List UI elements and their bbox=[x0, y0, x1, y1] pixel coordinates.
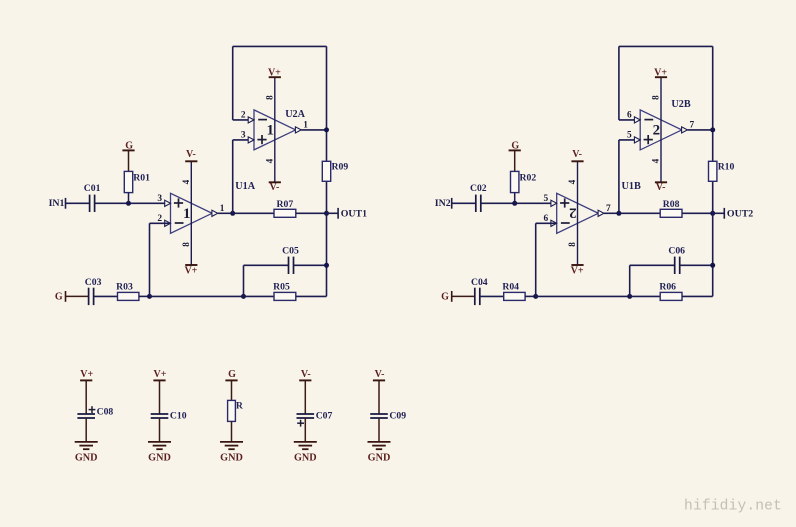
wire bbox=[149, 223, 151, 296]
svg-text:4: 4 bbox=[651, 158, 661, 163]
svg-text:R02: R02 bbox=[520, 172, 537, 183]
svg-text:R: R bbox=[236, 400, 244, 411]
node rail junction 2 bbox=[241, 294, 246, 299]
wire bbox=[680, 264, 713, 266]
resistor R09 bbox=[322, 161, 348, 181]
pin 5 (+in) bbox=[627, 131, 640, 144]
wire bbox=[66, 295, 89, 297]
wire bbox=[296, 212, 327, 214]
port OUT2 bbox=[724, 208, 753, 219]
resistor R01 bbox=[124, 151, 150, 204]
power V+ U1A pin 8 bbox=[181, 242, 198, 277]
svg-text:G: G bbox=[55, 292, 63, 303]
capacitor C05 bbox=[282, 245, 299, 274]
wire bbox=[630, 264, 675, 266]
svg-text:8: 8 bbox=[181, 242, 191, 247]
wire bbox=[630, 295, 661, 297]
wire bbox=[232, 140, 234, 213]
wire bbox=[629, 265, 631, 296]
wire bbox=[619, 45, 713, 47]
svg-text:5: 5 bbox=[627, 131, 632, 141]
port IN1 bbox=[49, 198, 66, 209]
svg-text:U1B: U1B bbox=[622, 181, 641, 192]
power port G rail bbox=[441, 291, 452, 303]
port IN2 bbox=[435, 198, 452, 209]
svg-text:IN2: IN2 bbox=[435, 198, 451, 209]
wire bbox=[243, 265, 245, 296]
svg-text:5: 5 bbox=[544, 194, 549, 204]
svg-text:R08: R08 bbox=[663, 199, 680, 210]
wire bbox=[481, 202, 557, 204]
capacitor C04 bbox=[471, 277, 488, 305]
pin 5 (+in) bbox=[544, 194, 557, 207]
svg-text:R01: R01 bbox=[133, 172, 150, 183]
svg-text:2: 2 bbox=[157, 214, 162, 224]
svg-text:V+: V+ bbox=[184, 266, 197, 277]
svg-text:G: G bbox=[441, 292, 449, 303]
power V- U2B pin 4 bbox=[651, 158, 667, 193]
power V- U1B pin 4 bbox=[567, 149, 583, 184]
pin 1 (out) bbox=[295, 120, 308, 133]
svg-text:6: 6 bbox=[544, 214, 549, 224]
wire bbox=[682, 212, 713, 214]
wire bbox=[233, 139, 254, 141]
svg-text:U2B: U2B bbox=[671, 99, 690, 110]
resistor R08 bbox=[660, 199, 682, 217]
node IN1-junction bbox=[126, 201, 131, 206]
resistor R06 bbox=[659, 281, 682, 300]
power stick U2B bbox=[660, 77, 662, 182]
svg-text:R04: R04 bbox=[502, 281, 519, 292]
wire bbox=[536, 222, 557, 224]
svg-text:R03: R03 bbox=[116, 281, 133, 292]
wire bbox=[536, 295, 630, 297]
svg-text:V-: V- bbox=[301, 369, 311, 380]
svg-text:U2A: U2A bbox=[285, 109, 305, 120]
op-amp U2A bbox=[254, 110, 296, 150]
wire bbox=[480, 295, 504, 297]
power V+ U1B pin 8 bbox=[567, 242, 584, 277]
resistor R02 bbox=[511, 151, 537, 204]
node rail junction bbox=[533, 294, 538, 299]
svg-text:OUT1: OUT1 bbox=[341, 208, 367, 219]
wire bbox=[294, 264, 327, 266]
wire bbox=[233, 45, 327, 47]
wire bbox=[525, 295, 536, 297]
resistor R10 bbox=[709, 161, 735, 181]
svg-text:U1A: U1A bbox=[235, 181, 255, 192]
svg-text:V-: V- bbox=[375, 369, 385, 380]
wire bbox=[301, 129, 326, 131]
wire bbox=[232, 46, 234, 120]
pin 2 (-in) bbox=[241, 111, 254, 124]
wire bbox=[619, 119, 640, 121]
svg-text:GND: GND bbox=[220, 452, 243, 463]
svg-text:2: 2 bbox=[653, 122, 661, 138]
svg-text:8: 8 bbox=[567, 242, 577, 247]
node OUT2 bbox=[710, 211, 715, 216]
wire bbox=[244, 295, 275, 297]
power G bbox=[509, 140, 521, 151]
svg-text:C09: C09 bbox=[389, 411, 406, 422]
svg-text:4: 4 bbox=[264, 158, 274, 163]
power stick U1B bbox=[577, 161, 579, 265]
node U2B output bbox=[710, 127, 715, 132]
wire bbox=[233, 212, 274, 214]
capacitor C01 bbox=[84, 183, 101, 212]
svg-text:V-: V- bbox=[572, 149, 582, 160]
power port G rail bbox=[55, 291, 66, 303]
node rail junction 2 bbox=[627, 294, 632, 299]
svg-text:C08: C08 bbox=[97, 406, 114, 417]
svg-text:R09: R09 bbox=[332, 161, 349, 172]
svg-text:hifidiy.net: hifidiy.net bbox=[684, 499, 782, 515]
svg-text:V-: V- bbox=[269, 182, 279, 193]
wire bbox=[150, 222, 171, 224]
svg-text:GND: GND bbox=[294, 452, 317, 463]
resistor R03 bbox=[116, 281, 139, 300]
svg-text:C10: C10 bbox=[170, 411, 187, 422]
capacitor C02 bbox=[470, 183, 487, 212]
wire bbox=[712, 46, 714, 296]
node U2A output bbox=[324, 127, 329, 132]
wire bbox=[327, 212, 339, 214]
svg-text:C05: C05 bbox=[282, 245, 299, 256]
wire bbox=[618, 140, 620, 213]
svg-text:V+: V+ bbox=[571, 266, 584, 277]
op-amp U1A designator bbox=[235, 181, 255, 192]
node IN2-junction bbox=[512, 201, 517, 206]
power G bbox=[122, 140, 134, 151]
svg-text:GND: GND bbox=[368, 452, 391, 463]
wire bbox=[618, 46, 620, 120]
svg-text:1: 1 bbox=[303, 120, 308, 130]
wire bbox=[619, 139, 640, 141]
wire bbox=[150, 295, 244, 297]
wire bbox=[233, 119, 254, 121]
wire bbox=[682, 295, 713, 297]
power V+ U2B pin 8 bbox=[651, 68, 668, 100]
pin 3 (+in) bbox=[241, 131, 254, 144]
svg-text:R07: R07 bbox=[277, 199, 294, 210]
svg-text:2: 2 bbox=[241, 111, 246, 121]
pin 6 (-in) bbox=[544, 214, 557, 227]
svg-text:IN1: IN1 bbox=[49, 198, 65, 209]
node U1A output bbox=[230, 211, 235, 216]
node OUT1 bbox=[324, 211, 329, 216]
svg-text:3: 3 bbox=[241, 131, 246, 141]
svg-text:R05: R05 bbox=[273, 281, 290, 292]
wire bbox=[326, 46, 328, 296]
svg-text:V-: V- bbox=[186, 149, 196, 160]
power V- U1A pin 4 bbox=[181, 149, 197, 184]
wire bbox=[535, 223, 537, 296]
wire bbox=[713, 212, 725, 214]
wire bbox=[619, 212, 660, 214]
pin 1 (out) bbox=[212, 204, 225, 216]
svg-text:8: 8 bbox=[264, 95, 274, 100]
power stick U1A bbox=[190, 161, 192, 265]
svg-text:G: G bbox=[228, 369, 236, 380]
resistor R04 bbox=[502, 281, 525, 300]
svg-text:R06: R06 bbox=[659, 281, 676, 292]
svg-text:R10: R10 bbox=[718, 161, 735, 172]
wire bbox=[66, 202, 90, 204]
svg-text:GND: GND bbox=[148, 452, 171, 463]
svg-text:4: 4 bbox=[567, 179, 577, 184]
svg-text:4: 4 bbox=[181, 179, 191, 184]
power V+ U2A pin 8 bbox=[264, 68, 281, 100]
wire bbox=[218, 212, 233, 214]
svg-text:C07: C07 bbox=[316, 411, 333, 422]
wire bbox=[244, 264, 289, 266]
wire bbox=[139, 295, 150, 297]
svg-text:1: 1 bbox=[266, 122, 274, 138]
port OUT1 bbox=[338, 208, 367, 219]
power stick U2A bbox=[274, 77, 276, 182]
resistor R (G to GND) bbox=[220, 369, 244, 463]
pin 6 (-in) bbox=[627, 111, 640, 124]
node U1B output bbox=[616, 211, 621, 216]
svg-text:GND: GND bbox=[75, 452, 98, 463]
svg-text:1: 1 bbox=[183, 206, 191, 222]
svg-text:OUT2: OUT2 bbox=[727, 208, 753, 219]
resistor R05 bbox=[273, 281, 296, 300]
op-amp U2A designator bbox=[285, 109, 305, 120]
capacitor C06 bbox=[668, 245, 685, 274]
power V- U2A pin 4 bbox=[264, 158, 280, 193]
op-amp U1A bbox=[171, 193, 213, 233]
svg-text:C04: C04 bbox=[471, 277, 488, 288]
svg-text:C02: C02 bbox=[470, 183, 487, 194]
wire bbox=[687, 129, 712, 131]
op-amp U1B bbox=[557, 193, 599, 233]
pin 3 (+in) bbox=[157, 194, 170, 207]
svg-text:8: 8 bbox=[651, 95, 661, 100]
svg-text:3: 3 bbox=[157, 194, 162, 204]
svg-text:V+: V+ bbox=[80, 369, 93, 380]
wire bbox=[296, 295, 327, 297]
node rail junction bbox=[147, 294, 152, 299]
svg-text:6: 6 bbox=[627, 111, 632, 121]
wire bbox=[452, 202, 476, 204]
capacitor C03 bbox=[85, 277, 102, 305]
wire bbox=[604, 212, 619, 214]
svg-text:V+: V+ bbox=[154, 369, 167, 380]
op-amp U2B designator bbox=[671, 99, 690, 110]
svg-text:2: 2 bbox=[569, 205, 577, 221]
wire bbox=[95, 202, 171, 204]
resistor R07 bbox=[274, 199, 296, 217]
capacitor C08 (V+ decoupling, polarized) bbox=[75, 369, 114, 463]
wire bbox=[94, 295, 118, 297]
svg-text:V-: V- bbox=[656, 182, 666, 193]
svg-text:C06: C06 bbox=[668, 245, 685, 256]
pin 7 (out) bbox=[682, 120, 695, 133]
wire bbox=[452, 295, 475, 297]
capacitor C07 (V- decoupling, polarized) bbox=[294, 369, 333, 463]
capacitor C10 (V+ decoupling) bbox=[148, 369, 187, 463]
watermark hifidiy.net bbox=[684, 499, 782, 515]
node C06 right bbox=[710, 263, 715, 268]
op-amp U2B bbox=[640, 110, 682, 150]
pin 2 (-in) bbox=[157, 214, 170, 227]
svg-text:C03: C03 bbox=[85, 277, 102, 288]
op-amp U1B designator bbox=[622, 181, 641, 192]
pin 7 (out) bbox=[598, 204, 611, 216]
node C05 right bbox=[324, 263, 329, 268]
capacitor C09 (V- decoupling) bbox=[368, 369, 407, 463]
svg-text:C01: C01 bbox=[84, 183, 101, 194]
svg-text:7: 7 bbox=[689, 120, 694, 130]
